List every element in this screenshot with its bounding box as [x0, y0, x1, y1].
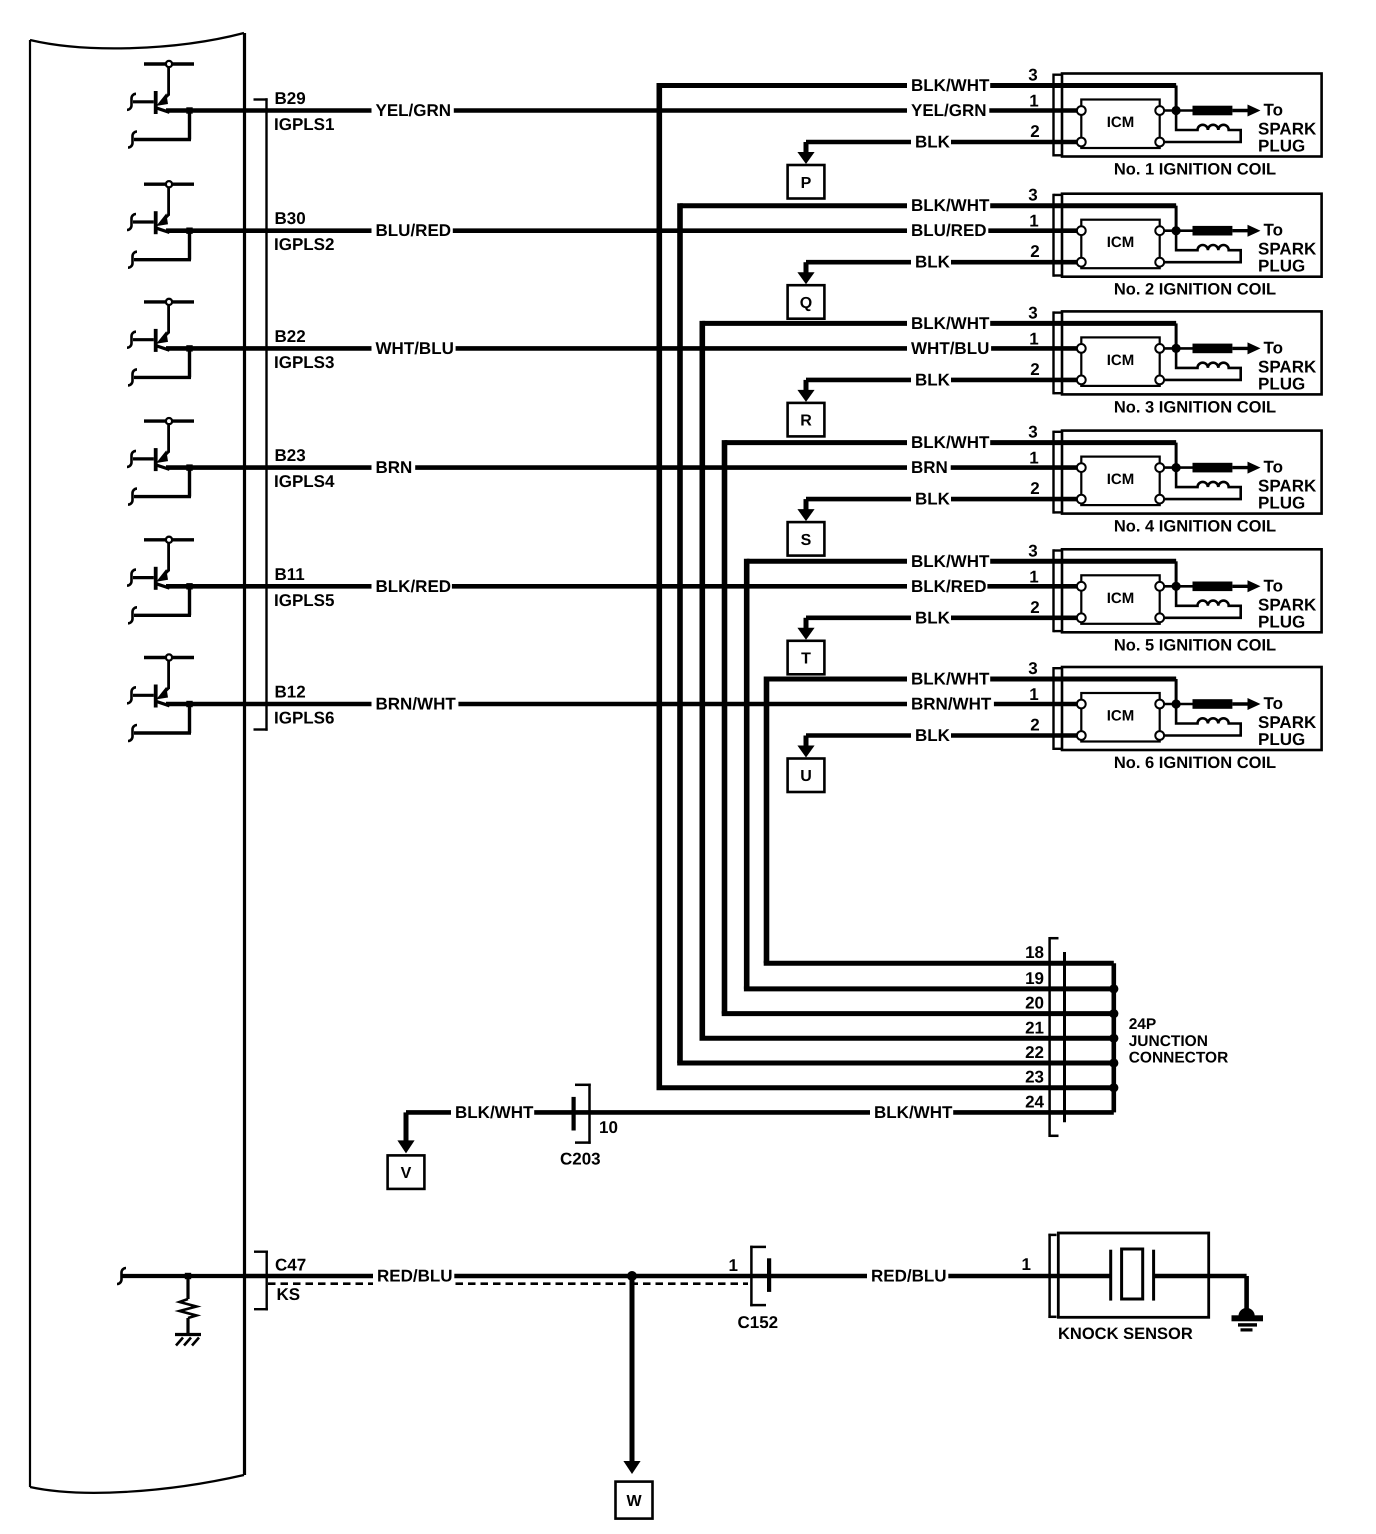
- svg-text:1: 1: [1029, 449, 1038, 468]
- ICM (igniter) of coil 1: [1077, 100, 1164, 149]
- svg-text:BLK: BLK: [915, 133, 951, 152]
- svg-text:B23: B23: [275, 446, 306, 465]
- label BLK/WHT (left of C203): [451, 1101, 534, 1123]
- svg-text:1: 1: [1022, 1255, 1031, 1274]
- No.6 ignition coil box: [1054, 667, 1322, 750]
- svg-text:No. 4 IGNITION COIL: No. 4 IGNITION COIL: [1114, 518, 1276, 536]
- svg-text:3: 3: [1028, 66, 1037, 85]
- svg-text:ICM: ICM: [1107, 471, 1135, 488]
- svg-text:To: To: [1264, 338, 1284, 357]
- svg-text:1: 1: [1029, 685, 1038, 704]
- arrow to ground code R: [788, 380, 825, 437]
- svg-text:P: P: [801, 175, 812, 192]
- svg-text:RED/BLU: RED/BLU: [377, 1267, 453, 1286]
- svg-text:B30: B30: [275, 209, 306, 228]
- wire B23 IGPLS4 BRN from ECM to coil 4 pin 1: [128, 464, 1081, 504]
- junction node on IGPLS2 output: [186, 228, 192, 234]
- transistor Q5 (ignition driver 5): [127, 537, 194, 590]
- label WHT/BLU (left): [372, 337, 456, 359]
- svg-text:V: V: [401, 1165, 412, 1182]
- label BLK/WHT coil 2: [907, 195, 990, 217]
- svg-text:PLUG: PLUG: [1258, 137, 1305, 156]
- svg-text:R: R: [800, 413, 812, 430]
- junction connector common bus: [1109, 963, 1118, 1112]
- ground (internal, ECM): [175, 1335, 201, 1346]
- svg-text:U: U: [800, 768, 812, 785]
- wire RED/BLU knock sensor: [245, 1274, 1111, 1279]
- svg-text:BLK/RED: BLK/RED: [376, 577, 452, 596]
- svg-text:1: 1: [1029, 329, 1038, 348]
- coil 2 primary winding and spark output: [1164, 221, 1317, 276]
- arrow to ground code S: [788, 499, 825, 555]
- junction node to ground code W: [627, 1271, 637, 1281]
- No.1 ignition coil box: [1054, 74, 1322, 157]
- connector C152 symbol: [750, 1246, 771, 1307]
- svg-text:3: 3: [1028, 659, 1037, 678]
- wire B11 IGPLS5 BLK/RED from ECM to coil 5 pin 1: [128, 583, 1081, 623]
- svg-text:KS: KS: [277, 1285, 301, 1304]
- svg-text:B29: B29: [275, 89, 306, 108]
- wire B29 IGPLS1 YEL/GRN from ECM to coil 1 pin 1: [128, 107, 1081, 147]
- svg-text:B11: B11: [275, 565, 305, 584]
- svg-text:C203: C203: [560, 1150, 601, 1169]
- svg-text:BLK/WHT: BLK/WHT: [911, 314, 990, 333]
- label WHT/BLU (right): [907, 337, 991, 359]
- svg-text:21: 21: [1025, 1018, 1044, 1037]
- coil 5 primary winding and spark output: [1164, 576, 1317, 631]
- label 24P JUNCTION CONNECTOR: [1129, 1016, 1229, 1067]
- knock sensor piezo element: [1111, 1249, 1247, 1301]
- ECM/PCM module box (torn edges): [30, 33, 245, 1493]
- svg-text:BLK: BLK: [915, 253, 951, 272]
- svg-text:BRN/WHT: BRN/WHT: [376, 695, 457, 714]
- svg-text:S: S: [801, 532, 812, 549]
- junction node on IGPLS6 output: [186, 701, 192, 707]
- BLK ground wire coil 2 pin 2: [806, 260, 1081, 265]
- svg-text:PLUG: PLUG: [1258, 257, 1305, 276]
- label BLK/WHT coil 5: [907, 550, 990, 572]
- label BLK/WHT coil 6: [907, 668, 990, 690]
- svg-text:YEL/GRN: YEL/GRN: [376, 101, 452, 120]
- svg-text:T: T: [801, 651, 811, 668]
- label BLK/RED (right): [907, 575, 987, 597]
- svg-text:PLUG: PLUG: [1258, 612, 1305, 631]
- label BLK coil 5: [911, 607, 951, 629]
- ECM connector bracket C47: [254, 1251, 268, 1311]
- svg-text:BLK/WHT: BLK/WHT: [874, 1103, 953, 1122]
- arrow to ground code P: [788, 142, 825, 199]
- svg-text:3: 3: [1028, 186, 1037, 205]
- ICM (igniter) of coil 6: [1077, 693, 1164, 742]
- label BLK/WHT coil 4: [907, 432, 990, 454]
- label BLK coil 6: [911, 725, 951, 747]
- label BLU/RED (right): [907, 220, 988, 242]
- svg-text:To: To: [1264, 221, 1284, 240]
- svg-text:To: To: [1264, 694, 1284, 713]
- svg-text:23: 23: [1025, 1068, 1044, 1087]
- No.5 ignition coil box: [1054, 549, 1322, 632]
- label BRN/WHT (left): [372, 693, 459, 715]
- svg-text:2: 2: [1030, 122, 1039, 141]
- svg-text:YEL/GRN: YEL/GRN: [911, 101, 987, 120]
- svg-text:2: 2: [1030, 360, 1039, 379]
- svg-text:BLK/WHT: BLK/WHT: [911, 552, 990, 571]
- BLK ground wire coil 5 pin 2: [806, 615, 1081, 620]
- label RED/BLU (right): [867, 1265, 948, 1287]
- label BRN (right): [907, 457, 951, 479]
- 24P junction connector symbol: [1050, 937, 1065, 1137]
- knock sensor box: [1058, 1233, 1208, 1317]
- svg-text:1: 1: [1029, 92, 1038, 111]
- label BLK coil 4: [911, 488, 951, 510]
- svg-text:10: 10: [599, 1118, 618, 1137]
- transistor Q3 (ignition driver 3): [127, 299, 194, 352]
- svg-text:BLU/RED: BLU/RED: [376, 221, 452, 240]
- svg-text:IGPLS2: IGPLS2: [274, 235, 334, 254]
- label YEL/GRN (left): [372, 100, 454, 122]
- BLK/WHT bus wire coil 1 to junction connector pin 23: [657, 83, 1177, 1088]
- svg-text:20: 20: [1025, 994, 1044, 1013]
- label BRN/WHT (right): [907, 693, 994, 715]
- svg-text:No. 1 IGNITION COIL: No. 1 IGNITION COIL: [1114, 161, 1276, 179]
- coil 4 primary winding and spark output: [1164, 458, 1317, 513]
- svg-text:1: 1: [729, 1256, 738, 1275]
- svg-text:BLK: BLK: [915, 726, 951, 745]
- svg-text:BLK/WHT: BLK/WHT: [455, 1103, 534, 1122]
- junction node on IGPLS5 output: [186, 583, 192, 589]
- ECM connector bracket B29-B12: [254, 98, 268, 730]
- junction node on IGPLS1 output: [186, 107, 192, 113]
- transistor Q6 (ignition driver 6): [127, 654, 194, 707]
- ICM (igniter) of coil 5: [1077, 575, 1164, 624]
- svg-text:24: 24: [1025, 1092, 1044, 1111]
- label BLK coil 2: [911, 251, 951, 273]
- wire B12 IGPLS6 BRN/WHT from ECM to coil 6 pin 1: [128, 701, 1081, 741]
- internal pull-up resistor (knock sensor input): [117, 1268, 245, 1334]
- svg-text:IGPLS6: IGPLS6: [274, 709, 334, 728]
- svg-text:C47: C47: [275, 1256, 306, 1275]
- svg-text:1: 1: [1029, 212, 1038, 231]
- svg-text:BRN: BRN: [911, 458, 948, 477]
- ICM (igniter) of coil 2: [1077, 220, 1164, 269]
- wire to ground code W: [630, 1276, 635, 1463]
- svg-text:BLK/WHT: BLK/WHT: [911, 433, 990, 452]
- svg-text:No. 3 IGNITION COIL: No. 3 IGNITION COIL: [1114, 398, 1276, 416]
- svg-text:CONNECTOR: CONNECTOR: [1129, 1050, 1229, 1067]
- svg-text:PLUG: PLUG: [1258, 374, 1305, 393]
- svg-text:WHT/BLU: WHT/BLU: [911, 339, 989, 358]
- svg-text:W: W: [626, 1493, 642, 1510]
- transistor Q1 (ignition driver 1): [127, 61, 194, 114]
- svg-text:ICM: ICM: [1107, 590, 1135, 607]
- svg-text:BLK/WHT: BLK/WHT: [911, 196, 990, 215]
- svg-text:IGPLS4: IGPLS4: [274, 472, 335, 491]
- svg-text:ICM: ICM: [1107, 234, 1135, 251]
- svg-text:PLUG: PLUG: [1258, 494, 1305, 513]
- svg-text:IGPLS3: IGPLS3: [274, 353, 334, 372]
- BLK/WHT bus wire coil 4 to junction connector pin 20: [722, 440, 1176, 1014]
- svg-text:2: 2: [1030, 479, 1039, 498]
- svg-text:BLK/RED: BLK/RED: [911, 577, 987, 596]
- svg-text:BLK: BLK: [915, 490, 951, 509]
- coil 6 primary winding and spark output: [1164, 694, 1317, 749]
- label BLK coil 1: [911, 131, 951, 153]
- BLK/WHT bus wire coil 3 to junction connector pin 21: [700, 321, 1177, 1038]
- label BRN (left): [372, 457, 416, 479]
- arrow to ground code Q: [788, 262, 825, 319]
- wire BLK/WHT junction connector pin 24 to C203: [406, 1110, 1114, 1115]
- svg-text:To: To: [1264, 101, 1284, 120]
- arrow to ground code U: [788, 736, 825, 793]
- svg-text:BRN: BRN: [376, 458, 413, 477]
- coil 1 primary winding and spark output: [1164, 101, 1317, 156]
- label BLU/RED (left): [372, 220, 453, 242]
- svg-text:BLU/RED: BLU/RED: [911, 221, 987, 240]
- svg-text:IGPLS5: IGPLS5: [274, 591, 334, 610]
- wire B30 IGPLS2 BLU/RED from ECM to coil 2 pin 1: [128, 228, 1081, 268]
- svg-text:1: 1: [1029, 567, 1038, 586]
- svg-text:WHT/BLU: WHT/BLU: [376, 339, 454, 358]
- ICM (igniter) of coil 3: [1077, 337, 1164, 386]
- svg-text:BLK/WHT: BLK/WHT: [911, 670, 990, 689]
- junction node on IGPLS4 output: [186, 464, 192, 470]
- BLK ground wire coil 4 pin 2: [806, 497, 1081, 502]
- svg-text:ICM: ICM: [1107, 708, 1135, 725]
- svg-text:BLK/WHT: BLK/WHT: [911, 76, 990, 95]
- junction node on IGPLS3 output: [186, 345, 192, 351]
- svg-text:To: To: [1264, 576, 1284, 595]
- BLK ground wire coil 6 pin 2: [806, 733, 1081, 738]
- svg-text:24P: 24P: [1129, 1016, 1157, 1033]
- svg-text:KNOCK SENSOR: KNOCK SENSOR: [1058, 1325, 1193, 1343]
- svg-text:B12: B12: [275, 683, 306, 702]
- svg-text:19: 19: [1025, 969, 1044, 988]
- svg-text:JUNCTION: JUNCTION: [1129, 1033, 1208, 1050]
- transistor Q4 (ignition driver 4): [127, 418, 194, 471]
- svg-text:3: 3: [1028, 423, 1037, 442]
- No.2 ignition coil box: [1054, 194, 1322, 277]
- transistor Q2 (ignition driver 2): [127, 181, 194, 234]
- label BLK/WHT (right of C203): [870, 1101, 953, 1123]
- svg-text:BLK: BLK: [915, 608, 951, 627]
- BLK ground wire coil 3 pin 2: [806, 378, 1081, 383]
- svg-text:ICM: ICM: [1107, 114, 1135, 131]
- connector C203 symbol: [572, 1084, 591, 1144]
- svg-text:2: 2: [1030, 598, 1039, 617]
- svg-text:3: 3: [1028, 541, 1037, 560]
- coil 3 primary winding and spark output: [1164, 338, 1317, 393]
- BLK ground wire coil 1 pin 2: [806, 140, 1081, 145]
- svg-text:PLUG: PLUG: [1258, 730, 1305, 749]
- svg-text:Q: Q: [800, 295, 812, 312]
- label BLK coil 3: [911, 369, 951, 391]
- svg-text:IGPLS1: IGPLS1: [274, 115, 334, 134]
- label BLK/RED (left): [372, 575, 452, 597]
- label BLK/WHT coil 1: [907, 75, 990, 97]
- svg-text:C152: C152: [738, 1313, 779, 1332]
- svg-text:No. 5 IGNITION COIL: No. 5 IGNITION COIL: [1114, 636, 1276, 654]
- svg-text:2: 2: [1030, 716, 1039, 735]
- svg-text:BRN/WHT: BRN/WHT: [911, 695, 992, 714]
- BLK/WHT bus wire coil 5 to junction connector pin 19: [744, 559, 1176, 989]
- ground G (knock sensor): [1232, 1276, 1264, 1332]
- svg-text:BLK: BLK: [915, 370, 951, 389]
- svg-text:B22: B22: [275, 327, 306, 346]
- svg-text:22: 22: [1025, 1043, 1044, 1062]
- label RED/BLU (left): [373, 1265, 454, 1287]
- svg-text:To: To: [1264, 458, 1284, 477]
- svg-text:3: 3: [1028, 303, 1037, 322]
- BLK/WHT bus wire coil 2 to junction connector pin 22: [677, 203, 1176, 1063]
- BLK/WHT bus wire coil 6 to junction connector pin 18: [764, 677, 1176, 964]
- svg-text:No. 2 IGNITION COIL: No. 2 IGNITION COIL: [1114, 281, 1276, 299]
- knock sensor bracket: [1048, 1234, 1056, 1318]
- svg-text:2: 2: [1030, 242, 1039, 261]
- wire B22 IGPLS3 WHT/BLU from ECM to coil 3 pin 1: [128, 345, 1081, 385]
- shield line (dashed): [268, 1282, 748, 1285]
- arrow to ground code T: [788, 618, 825, 675]
- svg-text:18: 18: [1025, 943, 1044, 962]
- arrow to ground code V: [388, 1112, 425, 1189]
- No.3 ignition coil box: [1054, 311, 1322, 394]
- svg-text:RED/BLU: RED/BLU: [871, 1267, 947, 1286]
- No.4 ignition coil box: [1054, 431, 1322, 514]
- ICM (igniter) of coil 4: [1077, 457, 1164, 506]
- arrow to ground code W: [616, 1461, 653, 1519]
- label YEL/GRN (right): [907, 100, 989, 122]
- label BLK/WHT coil 3: [907, 312, 990, 334]
- svg-text:No. 6 IGNITION COIL: No. 6 IGNITION COIL: [1114, 754, 1276, 772]
- svg-text:ICM: ICM: [1107, 352, 1135, 369]
